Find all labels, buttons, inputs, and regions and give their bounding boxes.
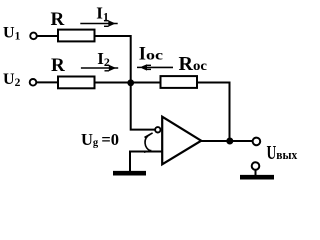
op-amp DA1 triangle — [162, 117, 201, 165]
terminal output — [253, 138, 261, 146]
current arrow I2 — [81, 65, 118, 72]
junction output node — [226, 138, 233, 145]
current arrow Ioc (feedback current, pointing left) — [137, 64, 173, 70]
junction summing node — [127, 79, 134, 86]
resistor Roc (feedback) — [161, 76, 198, 88]
terminal U2 input — [30, 79, 37, 86]
svg-text:R: R — [51, 55, 65, 76]
svg-text:Iос: Iос — [139, 44, 163, 64]
resistor R1 — [58, 30, 95, 42]
wire op-amp output — [201, 140, 253, 142]
op-amp DA1 inversion bubble — [155, 127, 160, 132]
wire R1 to summing node corner — [95, 36, 131, 83]
wire summing node to Roc — [131, 82, 161, 84]
current arrow I1 — [80, 20, 117, 27]
wire summing node down to inverting input — [131, 83, 155, 130]
wire U1 terminal to R1 — [37, 35, 58, 37]
wire Roc to feedback corner down to output — [197, 83, 230, 142]
terminal output ground — [252, 162, 260, 170]
differential voltage curved arrow Ud — [144, 133, 153, 152]
wire output ground stub — [255, 170, 257, 175]
ground (output terminal) — [240, 175, 274, 180]
ground (op-amp non-inverting input) — [113, 171, 146, 176]
wire U2 terminal to R2 — [37, 81, 58, 83]
terminal U1 input — [30, 33, 37, 40]
wire non-inverting input to ground — [130, 152, 163, 172]
svg-text:R: R — [51, 9, 65, 30]
resistor R2 — [58, 77, 95, 89]
wire R2 to summing node — [95, 82, 131, 84]
